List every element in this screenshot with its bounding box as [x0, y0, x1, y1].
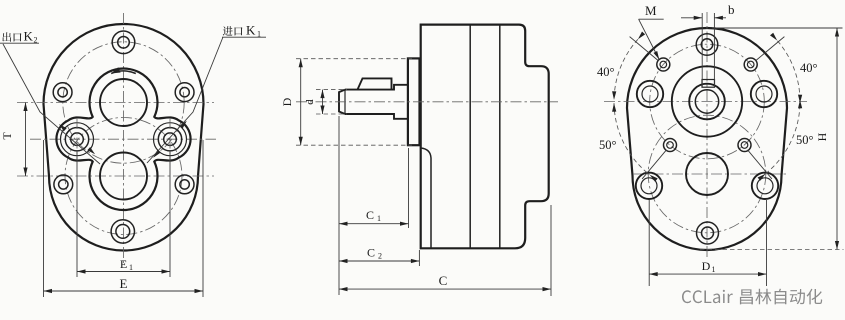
- svg-text:T: T: [0, 132, 14, 140]
- svg-text:D: D: [702, 259, 711, 273]
- svg-text:40°: 40°: [597, 65, 615, 79]
- svg-text:C: C: [366, 208, 374, 222]
- svg-text:C: C: [367, 246, 375, 260]
- svg-text:2: 2: [378, 252, 382, 261]
- svg-text:50°: 50°: [599, 138, 617, 152]
- svg-text:C: C: [439, 273, 448, 288]
- svg-text:b: b: [728, 2, 735, 17]
- svg-text:40°: 40°: [800, 61, 818, 75]
- svg-text:1: 1: [377, 214, 381, 223]
- svg-text:d: d: [304, 99, 316, 105]
- svg-text:D: D: [280, 97, 294, 106]
- svg-text:K: K: [246, 23, 256, 38]
- svg-text:H: H: [815, 132, 829, 141]
- svg-text:E: E: [120, 257, 127, 271]
- svg-text:1: 1: [712, 265, 716, 274]
- svg-text:E: E: [120, 276, 128, 291]
- svg-text:50°: 50°: [796, 133, 814, 147]
- svg-text:1: 1: [129, 263, 133, 272]
- svg-text:M: M: [645, 3, 657, 18]
- svg-text:K: K: [24, 29, 34, 44]
